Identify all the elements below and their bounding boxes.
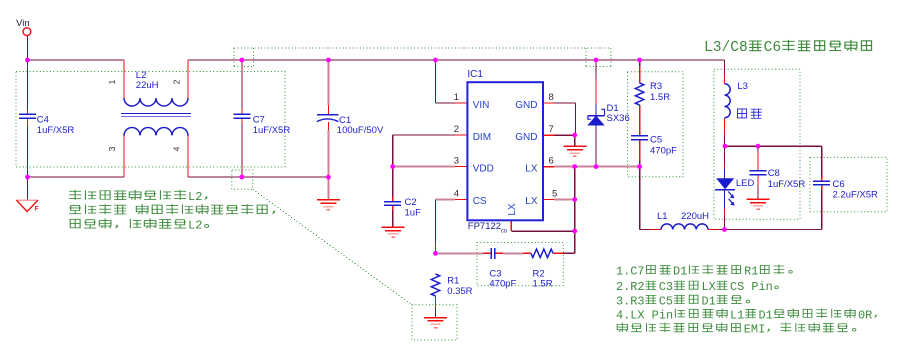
junction node R3 top (637, 58, 642, 63)
svg-text:Vin: Vin (16, 18, 30, 29)
pin stub R2 left (523, 252, 531, 254)
wire top rail main segment (188, 59, 725, 61)
svg-text:CS Pin: CS Pin (730, 280, 773, 294)
dashed leader diagonal to R1 ground (253, 189, 412, 305)
junction node input return (25, 175, 30, 180)
pin stub GND pin7 (543, 134, 554, 136)
svg-text:2: 2 (454, 124, 459, 135)
note layout guidelines (616, 265, 876, 337)
dashed box around R3 C5 (628, 72, 684, 177)
wire C3 to R2 (503, 252, 523, 254)
svg-text:CS: CS (473, 196, 487, 207)
wire LX row (554, 166, 640, 168)
wire D1 column (595, 60, 597, 79)
junction node LX-C5 (637, 164, 642, 169)
svg-text:R3: R3 (650, 81, 662, 92)
svg-text:C5: C5 (650, 135, 662, 146)
svg-text:D1: D1 (702, 294, 716, 308)
svg-text:EMI: EMI (744, 323, 765, 337)
junction node LX pin6 (572, 164, 577, 169)
ground IC pin7 (563, 145, 586, 147)
junction node C7 bottom (240, 175, 245, 180)
svg-text:LED: LED (736, 178, 755, 189)
junction node Vin rail (25, 58, 30, 63)
svg-text:GND: GND (515, 100, 537, 111)
dashed box around D1 top junction (585, 48, 587, 67)
capacitor C5 (631, 135, 648, 137)
svg-text:L1: L1 (657, 211, 668, 222)
capacitor C2 (384, 201, 401, 203)
wire pin8 to pin7 (554, 102, 576, 104)
capacitor C8 (750, 170, 767, 172)
capacitor C7 (234, 113, 251, 115)
junction node L1-LED (722, 227, 727, 232)
wire C8 column (757, 146, 759, 152)
svg-text:470pF: 470pF (489, 278, 516, 289)
label L3 ferrite bead (738, 109, 762, 118)
wire VDD net (393, 166, 456, 168)
svg-text:6: 6 (549, 156, 554, 167)
pin stub LX pin6 (543, 166, 554, 168)
svg-text:VDD: VDD (473, 163, 494, 174)
pin stub R1 top (435, 243, 437, 253)
svg-text:IC1: IC1 (467, 69, 483, 80)
wire C2 column (392, 167, 394, 198)
pin stub DIM pin2 (455, 134, 467, 136)
pin stub CS pin4 (455, 199, 467, 201)
svg-text:FP7122: FP7122 (468, 221, 501, 232)
wire Vin drop (27, 36, 29, 61)
svg-text:2: 2 (172, 79, 182, 84)
wire pin7 to ground (554, 134, 575, 136)
svg-text:co: co (501, 229, 508, 235)
wire LED row (725, 145, 822, 147)
junction node VIN branch (433, 58, 438, 63)
wire LED cathode (724, 190, 726, 209)
svg-text:C6: C6 (764, 40, 782, 56)
svg-text:3: 3 (107, 146, 117, 151)
svg-text:1.5R: 1.5R (533, 278, 553, 289)
wire L3 bottom (724, 118, 726, 135)
svg-text:5: 5 (552, 189, 557, 200)
junction node CS-R1 (433, 251, 438, 256)
svg-text:L2: L2 (188, 219, 202, 233)
junction node C1 bottom (326, 175, 331, 180)
svg-text:C3: C3 (659, 280, 673, 294)
junction node LX pad (572, 229, 577, 234)
inductor L1 (661, 224, 708, 230)
wire R3 to C5 (639, 105, 641, 136)
svg-text:3: 3 (454, 156, 459, 167)
wire R3 column top (639, 60, 641, 66)
wire pin9 to LX column (511, 230, 574, 232)
dashed box around C7 bottom junction (232, 170, 253, 189)
svg-text:100uF/50V: 100uF/50V (337, 125, 384, 136)
svg-text:L2: L2 (188, 190, 202, 204)
wire right loop down (821, 146, 823, 177)
svg-text:C8: C8 (768, 168, 780, 179)
svg-text:1uF/X5R: 1uF/X5R (768, 179, 806, 190)
pin stub LX pin5 (543, 199, 554, 201)
svg-text:3.R3: 3.R3 (616, 294, 645, 308)
junction node LX pin5 (572, 197, 577, 202)
pin stub VIN pin1 (455, 102, 467, 104)
svg-text:1.5R: 1.5R (650, 92, 670, 103)
svg-text:SX36: SX36 (607, 113, 630, 124)
diode LED (717, 179, 733, 189)
pin stub LX pad pin9 (510, 220, 512, 231)
wire C7 column (241, 60, 243, 108)
pin stub R2 right (553, 252, 563, 254)
dashed box around C3 R2 (477, 243, 563, 286)
dashed box input filter section (16, 72, 285, 168)
note input-wire annotation (69, 190, 274, 233)
resistor R2 (531, 249, 553, 257)
wire C4 column (27, 60, 29, 110)
note heading L3/C8 and C6 alternative (704, 40, 872, 56)
wire pin5 to LX column (554, 199, 575, 201)
junction node LX-D1 (594, 164, 599, 169)
svg-text:0.35R: 0.35R (447, 286, 472, 297)
wire top rail left segment (28, 59, 125, 61)
svg-text:7: 7 (549, 124, 554, 135)
wire L2 pin2 (187, 60, 189, 98)
svg-text:F: F (35, 205, 39, 212)
wire bottom rail left segment (28, 176, 125, 178)
pin stub VDD pin3 (455, 166, 467, 168)
pin stub C3 left (483, 252, 491, 254)
svg-text:LX: LX (702, 280, 716, 294)
wire L3 column top (724, 60, 726, 74)
wire bottom rail mid segment (188, 176, 328, 178)
svg-text:C5: C5 (659, 294, 673, 308)
svg-text:LX: LX (525, 163, 538, 174)
wire C5 bottom (639, 140, 641, 162)
ground input triangle F (16, 199, 38, 201)
svg-text:D1: D1 (759, 308, 773, 322)
wire L1 right (708, 229, 719, 231)
resistor R1 (431, 274, 439, 296)
inductor L2 top winding (124, 98, 188, 106)
svg-text:GND: GND (515, 132, 537, 143)
svg-text:R1: R1 (447, 276, 459, 287)
svg-text:1: 1 (107, 79, 117, 84)
dashed box around L3 LED C8 (714, 69, 800, 219)
ground C2 (382, 226, 405, 228)
wire LX down to L1 (639, 167, 641, 230)
pin stub C3 right (495, 252, 503, 254)
svg-text:C7: C7 (253, 115, 265, 126)
ground C1 (317, 199, 340, 201)
svg-text:1: 1 (454, 92, 459, 103)
dashed box around C6 (810, 157, 887, 211)
wire L2 pin3 (123, 136, 125, 178)
svg-text:L3: L3 (737, 81, 748, 92)
wire DIM net (393, 134, 456, 136)
svg-text:LX: LX (507, 203, 518, 216)
op-amp IC1 body FP7122 (467, 82, 543, 220)
svg-text:VIN: VIN (473, 100, 490, 111)
svg-text:0R: 0R (858, 308, 872, 322)
wire LX column (574, 167, 576, 254)
junction node C7 top (240, 58, 245, 63)
svg-text:1.C7: 1.C7 (616, 265, 645, 279)
svg-text:2.R2: 2.R2 (616, 280, 645, 294)
wire VIN branch (435, 60, 437, 103)
svg-text:D1: D1 (673, 265, 687, 279)
dashed box around C7 top junction (233, 48, 235, 67)
svg-text:L1: L1 (730, 308, 744, 322)
wire C1 column (327, 60, 329, 105)
inductor L2 bottom winding (124, 128, 188, 136)
wire ground stem input (27, 177, 29, 200)
wire L1 left (640, 229, 650, 231)
svg-text:C6: C6 (833, 179, 845, 190)
capacitor C3 (490, 248, 492, 259)
svg-text:4: 4 (454, 189, 459, 200)
wire LED anode (724, 146, 726, 165)
wire CS net (436, 199, 456, 201)
wire LX column to R2 (563, 252, 574, 254)
resistor R3 (635, 83, 643, 105)
wire L2 pin4 (187, 136, 189, 178)
svg-text:4: 4 (172, 146, 182, 151)
svg-text:1uF/X5R: 1uF/X5R (253, 125, 291, 136)
junction node D1 top (594, 58, 599, 63)
ground R1 (424, 317, 447, 319)
svg-text:470pF: 470pF (650, 146, 677, 157)
svg-text:C4: C4 (37, 115, 49, 126)
svg-text:4.LX Pin: 4.LX Pin (616, 308, 673, 322)
junction node GND pin7 (572, 133, 577, 138)
diode D1 schottky (588, 116, 603, 125)
junction node C8 top (756, 144, 761, 149)
junction node LED anode (723, 144, 728, 149)
svg-text:LX: LX (525, 196, 538, 207)
junction node VDD-DIM (390, 164, 395, 169)
junction node C1 top (326, 58, 331, 63)
svg-text:R1: R1 (744, 265, 758, 279)
inductor L3 (725, 84, 731, 118)
svg-text:8: 8 (549, 92, 554, 103)
wire CS row to C3 (436, 252, 484, 254)
pin stub GND pin8 (543, 102, 554, 104)
wire L2 pin1 (123, 60, 125, 98)
svg-text:22uH: 22uH (136, 80, 159, 91)
wire bottom right row (725, 229, 822, 231)
capacitor C1 polarized (317, 114, 339, 116)
svg-text:1uF/X5R: 1uF/X5R (37, 125, 75, 136)
svg-text:L3/C8: L3/C8 (704, 40, 748, 56)
dashed box around R1 ground (412, 305, 457, 340)
dashed linker line C7-to-D1 (234, 47, 611, 49)
svg-text:1uF: 1uF (405, 207, 422, 218)
svg-text:DIM: DIM (473, 132, 491, 143)
svg-text:220uH: 220uH (681, 211, 709, 222)
port terminal Vin (23, 28, 31, 36)
ground C8 (747, 198, 770, 200)
capacitor C4 (19, 113, 36, 115)
svg-text:2.2uF/X5R: 2.2uF/X5R (833, 190, 879, 201)
inductor L2 core (121, 113, 191, 115)
wire R1 bottom (435, 296, 437, 309)
capacitor C6 (813, 180, 830, 182)
